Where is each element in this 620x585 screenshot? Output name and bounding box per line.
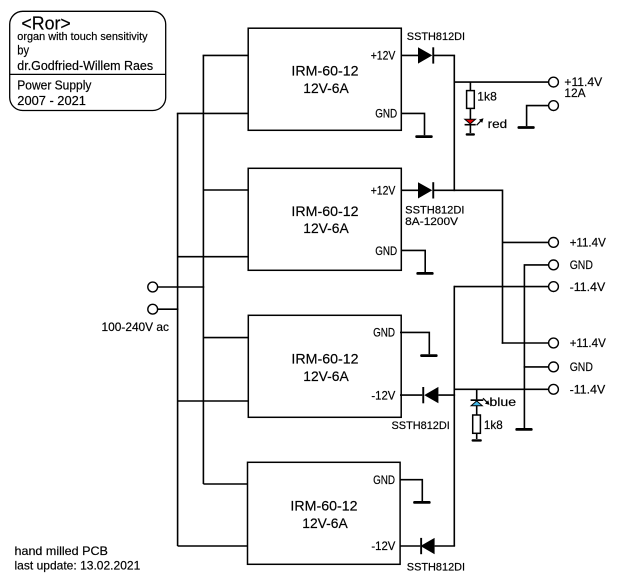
wire AC input N to bus1: [158, 308, 179, 310]
resistor R2 1k8: [473, 415, 503, 433]
wire PSU3 -12V to diode D3: [400, 394, 422, 396]
svg-text:IRM-60-12: IRM-60-12: [291, 203, 358, 219]
svg-text:IRM-60-12: IRM-60-12: [290, 498, 357, 514]
ground PSU1: [415, 135, 432, 138]
wire PSU1 left-bottom to bus1: [177, 112, 249, 114]
module PSU4 IRM-60-12: [248, 462, 401, 564]
wire PSU4 -12V to diode D4: [400, 545, 420, 547]
AC bus wire L (left vertical bus 1): [177, 113, 179, 546]
wire D2 cathode to +11.4V bus corner: [434, 189, 503, 191]
wire -11.4V out 2 rail: [454, 388, 549, 390]
ground LED1: [466, 133, 475, 135]
wire GND out 2: [524, 366, 549, 368]
terminal AC input L: [148, 282, 158, 292]
diode D4 SSTH812DI: [407, 538, 465, 574]
svg-text:1k8: 1k8: [484, 418, 503, 432]
svg-text:12V-6A: 12V-6A: [303, 368, 349, 384]
wire PSU3 GND pin: [400, 332, 429, 354]
svg-text:12V-6A: 12V-6A: [303, 80, 349, 96]
svg-text:+12V: +12V: [371, 49, 396, 63]
terminal AC input N: [148, 304, 158, 314]
svg-text:SSTH812DI: SSTH812DI: [407, 562, 465, 574]
wire PSU4 left-bottom to bus1: [178, 545, 248, 547]
wire +11.4V bus vertical: [502, 190, 504, 344]
wire PSU1 left-top to bus2: [203, 54, 249, 56]
title block: [10, 11, 166, 110]
wire LED2 to R2: [476, 406, 478, 415]
svg-text:-11.4V: -11.4V: [570, 280, 606, 294]
svg-text:Power Supply: Power Supply: [17, 78, 92, 93]
wire LED1 to ground: [469, 126, 471, 134]
resistor R1 1k8: [467, 82, 498, 108]
wire PSU1 +12V to diode D1: [401, 54, 419, 56]
wire R2 to ground: [476, 433, 478, 439]
terminal +11.4V 12A: [549, 77, 559, 87]
ground PSU3: [420, 354, 437, 357]
module PSU2 IRM-60-12: [248, 168, 401, 270]
svg-text:GND: GND: [570, 258, 593, 272]
wire PSU1 GND pin: [401, 113, 425, 135]
svg-text:12V-6A: 12V-6A: [303, 220, 349, 236]
wire PSU2 GND pin: [401, 250, 425, 272]
svg-text:+11.4V: +11.4V: [570, 336, 606, 350]
svg-text:blue: blue: [489, 395, 516, 409]
wire R1 to LED1: [469, 108, 471, 119]
svg-text:-11.4V: -11.4V: [570, 383, 606, 397]
wire +11.4V out 1: [503, 241, 549, 243]
svg-text:red: red: [488, 117, 508, 131]
wire GND bus corner + vertical: [524, 265, 548, 429]
ground PSU2: [416, 272, 433, 275]
svg-text:SSTH812DI: SSTH812DI: [392, 420, 450, 432]
wire D3 anode to -11.4V bus: [438, 394, 455, 396]
wire -11.4V out 1: [454, 286, 548, 288]
ground R2: [472, 439, 482, 441]
diode D3 SSTH812DI: [392, 387, 450, 432]
svg-text:hand milled PCB: hand milled PCB: [15, 544, 108, 558]
svg-text:12V-6A: 12V-6A: [302, 515, 348, 531]
terminal -11.4V out 2: [549, 384, 559, 394]
svg-text:8A-1200V: 8A-1200V: [405, 216, 459, 228]
svg-text:GND: GND: [375, 244, 397, 258]
terminal +11.4V out 1: [549, 238, 559, 248]
wire PSU4 GND pin: [400, 480, 422, 501]
wire PSU3 left-top to bus2: [203, 337, 248, 339]
svg-text:+11.4V: +11.4V: [570, 236, 606, 250]
wire PSU2 +12V to diode D2: [401, 189, 419, 191]
svg-text:GND: GND: [570, 360, 593, 374]
svg-text:IRM-60-12: IRM-60-12: [291, 63, 358, 79]
ground 12A return: [518, 126, 535, 129]
diode D1 SSTH812DI: [407, 31, 465, 64]
svg-text:+12V: +12V: [371, 184, 396, 198]
wire AC input L to bus2: [158, 286, 205, 288]
terminal GND out 1: [549, 260, 559, 270]
terminal GND out 2: [549, 362, 559, 372]
LED D6 blue: [471, 395, 517, 409]
svg-text:by: by: [17, 43, 29, 58]
wire +11.4V out 2: [502, 342, 549, 344]
wire 12A return to ground: [527, 106, 549, 127]
wire PSU2 left-bottom to bus1: [178, 256, 249, 258]
wire -11.4V rail to LED2: [476, 389, 478, 399]
wire PSU4 left-top to bus2: [203, 483, 247, 485]
wire +11.4V 12A output: [454, 81, 548, 83]
module PSU3 IRM-60-12: [248, 315, 401, 417]
svg-text:GND: GND: [375, 107, 397, 121]
ground GND bus: [515, 428, 532, 431]
terminal GND 12A return: [549, 101, 559, 111]
wire D4 anode to -11.4V bus corner: [435, 545, 456, 547]
module PSU1 IRM-60-12: [248, 28, 401, 130]
footer notes: [15, 544, 141, 572]
diode D2 SSTH812DI 8A-1200V: [405, 182, 464, 228]
terminal -11.4V out 1: [549, 282, 559, 292]
svg-text:GND: GND: [373, 326, 395, 340]
LED D5 red: [465, 117, 508, 131]
wire -11.4V bus vertical: [453, 286, 455, 546]
svg-text:GND: GND: [373, 473, 395, 487]
wire PSU3 left-bottom to bus1: [178, 400, 249, 402]
svg-text:IRM-60-12: IRM-60-12: [291, 351, 358, 367]
svg-text:last update: 13.02.2021: last update: 13.02.2021: [15, 558, 141, 572]
svg-text:organ with touch sensitivity: organ with touch sensitivity: [17, 31, 148, 43]
svg-text:1k8: 1k8: [477, 90, 497, 104]
svg-text:dr.Godfried-Willem Raes: dr.Godfried-Willem Raes: [17, 58, 153, 73]
svg-text:12A: 12A: [564, 86, 585, 100]
svg-text:-12V: -12V: [371, 388, 395, 402]
AC bus wire N (left vertical bus 2): [202, 55, 204, 484]
wire D1 cathode to node V1: [434, 54, 456, 56]
svg-text:SSTH812DI: SSTH812DI: [407, 31, 465, 43]
svg-text:SSTH812DI: SSTH812DI: [405, 205, 464, 217]
wire PSU2 left-top to bus2: [203, 189, 248, 191]
svg-text:2007 - 2021: 2007 - 2021: [17, 93, 86, 108]
wire node V1 vertical (D1 out down to PSU2 rail): [453, 55, 455, 191]
ground PSU4: [413, 501, 430, 504]
terminal +11.4V out 2: [549, 338, 559, 348]
svg-text:100-240V ac: 100-240V ac: [102, 320, 170, 334]
svg-text:-12V: -12V: [371, 539, 395, 553]
